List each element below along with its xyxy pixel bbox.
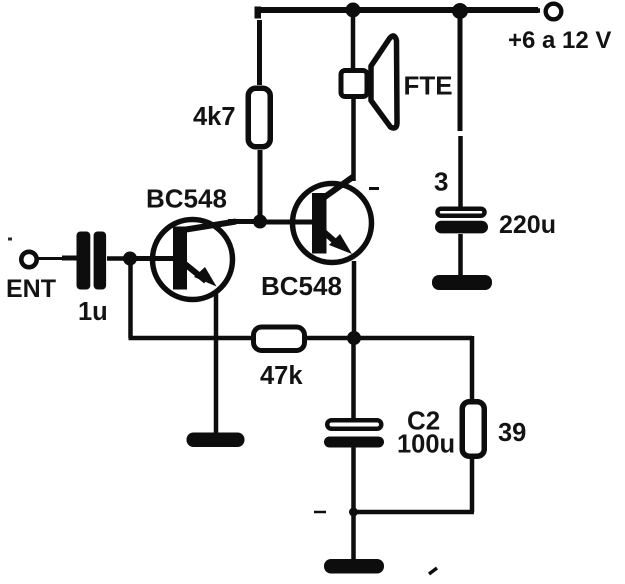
wire Q2 emitter down (352, 261, 357, 338)
wire speaker to Q2 collector (351, 97, 356, 181)
wire 4k7 bottom lead (258, 150, 263, 221)
capacitor C1 1u plate right (94, 232, 107, 290)
svg-text:ENT: ENT (6, 275, 56, 303)
stray dash near Q2 (369, 187, 379, 190)
transistor Q2 collector stroke (324, 177, 354, 198)
wire bottom horizontal (354, 510, 475, 515)
terminal ENT (21, 252, 36, 267)
wire C2 top lead (351, 338, 356, 420)
wire Q1 base (130, 256, 178, 261)
capacitor C2 plate bottom (324, 437, 384, 448)
wire supply terminal (460, 8, 540, 13)
wire Q1 emitter down (214, 292, 219, 435)
transistor Q2 (293, 184, 372, 263)
node B junction Q2 emitter (347, 331, 361, 345)
svg-text:4k7: 4k7 (193, 103, 236, 131)
capacitor C3 220u plate top (438, 209, 485, 216)
svg-text:BC548: BC548 (261, 271, 342, 301)
wire top rail (255, 7, 538, 13)
wire 39 branch down (470, 336, 475, 399)
stray dash bottom left of node C (314, 511, 326, 514)
resistor R3 39 (462, 402, 484, 457)
resistor R2 47k (254, 327, 305, 351)
svg-text:39: 39 (498, 419, 526, 447)
wire bottom ground lead (351, 512, 356, 559)
node input junction (123, 252, 137, 266)
wire ENT to 1u (38, 257, 64, 260)
svg-text:FTE: FTE (404, 70, 453, 100)
svg-text:1u: 1u (78, 298, 108, 326)
wire node down left (128, 259, 133, 338)
resistor R1 4k7 (248, 88, 270, 147)
transistor Q1 emitter stroke (185, 264, 206, 281)
speaker FTE cone (371, 36, 397, 128)
transistor Q2 base bar (312, 193, 327, 254)
node junction top right (452, 3, 468, 19)
node A junction 4k7 Q2 base (253, 215, 267, 229)
transistor Q2 emitter arrowhead (329, 234, 352, 254)
wire 1u to node (107, 256, 130, 261)
capacitor C1 1u plate left (77, 232, 91, 290)
speaker FTE box (341, 71, 367, 97)
transistor Q2 emitter stroke (324, 232, 340, 246)
stray comma bottom (429, 568, 437, 574)
wire right branch lower (458, 136, 463, 207)
ground under Q1 (187, 433, 245, 448)
wire Q2 base (260, 220, 319, 225)
wire C2 bottom lead (351, 446, 356, 512)
svg-text:100u: 100u (397, 431, 455, 459)
node junction top speaker (346, 3, 361, 18)
wire right branch upper (458, 12, 463, 131)
svg-text:3: 3 (434, 167, 448, 197)
wire 39 bottom lead (470, 459, 475, 512)
ground under 220u (432, 275, 492, 290)
svg-text:BC548: BC548 (146, 184, 227, 214)
wire feedback horizontal left (129, 336, 253, 341)
svg-text:47k: 47k (260, 362, 303, 390)
wire speaker branch upper (351, 10, 356, 70)
capacitor C2 plate top (327, 420, 381, 429)
transistor Q1 collector stroke (186, 222, 236, 230)
wire 4k7 top lead (257, 20, 262, 85)
wire 220u to ground (458, 234, 463, 277)
transistor Q1 (153, 220, 233, 300)
svg-text:+6 a 12 V: +6 a 12 V (508, 27, 611, 54)
terminal supply (546, 4, 562, 20)
wire feedback horizontal right (306, 336, 472, 341)
transistor Q1 base bar (173, 227, 187, 290)
ground bottom middle (324, 559, 384, 574)
svg-text:220u: 220u (499, 211, 556, 239)
wire Q1 collector horizontal (228, 219, 262, 224)
capacitor C3 220u plate bottom (435, 221, 488, 234)
transistor Q1 emitter arrowhead (194, 267, 217, 287)
stray speck left edge (8, 238, 12, 241)
node C junction bottom (349, 508, 358, 517)
